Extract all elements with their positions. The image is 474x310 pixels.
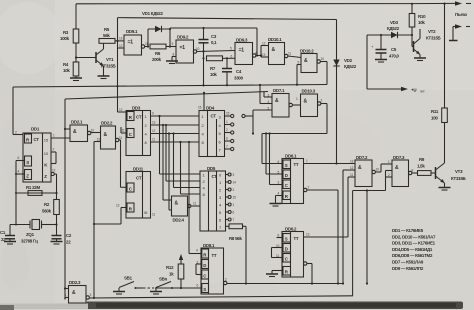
svg-text:C5: C5 <box>391 47 397 52</box>
wire +U supply tap <box>367 35 425 94</box>
ground under SBn <box>150 292 162 295</box>
wire DD8.1 output pin2 <box>224 278 344 285</box>
svg-text:&: & <box>358 165 362 171</box>
op-gate DD9.3 <box>235 38 257 65</box>
wire DD2.3 out bottom long feedback <box>89 296 352 299</box>
svg-text:S: S <box>285 163 288 168</box>
svg-text:ZQ1: ZQ1 <box>26 232 35 237</box>
svg-text:11: 11 <box>152 213 155 217</box>
svg-text:DD9 — К561ЛП2: DD9 — К561ЛП2 <box>392 266 424 271</box>
svg-text:КД522: КД522 <box>344 64 357 69</box>
wire spare feedback vertical <box>366 189 368 284</box>
switch SB1 <box>119 276 143 292</box>
wire DD7.3 lower input from DD2.3 via bottom <box>353 177 392 296</box>
wire buttons to DD8.1 S <box>155 287 201 289</box>
svg-text:DD10.1: DD10.1 <box>268 37 282 42</box>
resistor R10 <box>409 4 426 35</box>
svg-text:DD11: DD11 <box>133 167 144 172</box>
wire DD2.1 out to DD2.2 <box>91 132 101 134</box>
svg-text:10k: 10k <box>418 20 425 25</box>
svg-text:12: 12 <box>119 44 123 48</box>
wire DD1 pin15 to DD2.1 <box>51 134 70 139</box>
svg-text:SB1: SB1 <box>124 276 133 281</box>
wire DD4 top pin from rail B <box>198 92 205 111</box>
resistor R4 <box>63 62 79 76</box>
ground under R4 <box>70 76 82 81</box>
wire DD10.2 output loop to rail A <box>296 61 327 86</box>
logic gate DD2.4 <box>172 196 201 223</box>
svg-text:13: 13 <box>306 233 310 237</box>
diode VD1 KD522 <box>142 11 170 32</box>
wire bus vertical a <box>158 115 200 174</box>
svg-text:&: & <box>395 165 399 171</box>
decoder DD4 <box>199 106 225 157</box>
svg-text:11: 11 <box>288 52 291 56</box>
wire DD11 R input L-route <box>94 204 127 225</box>
svg-text:DD3: DD3 <box>132 106 141 111</box>
svg-text:R2: R2 <box>44 202 50 207</box>
svg-text:DD7 — К561ЛА9: DD7 — К561ЛА9 <box>392 260 424 265</box>
svg-text:DD9.2: DD9.2 <box>177 35 189 40</box>
svg-text:DD6.2: DD6.2 <box>285 227 297 232</box>
wire bus row4 <box>151 138 200 143</box>
ground under VT3 <box>439 188 451 191</box>
svg-text:12: 12 <box>350 166 354 170</box>
svg-text:DD9.3: DD9.3 <box>236 38 248 43</box>
wire rail B left end down to DD2.3 <box>64 99 66 299</box>
wire rail1 end arrow to piezo <box>455 1 462 5</box>
svg-text:DD2.2: DD2.2 <box>101 121 113 126</box>
svg-text:15: 15 <box>226 112 230 116</box>
svg-text:&: & <box>304 99 308 105</box>
ground DD9.2 <box>166 61 178 64</box>
transistor VT3 KT315B <box>436 152 466 188</box>
svg-text:560k: 560k <box>42 209 52 214</box>
svg-text:DD4: DD4 <box>206 106 215 111</box>
wire DD7.1 pin3 from rail B <box>264 92 272 97</box>
svg-text:R5: R5 <box>104 27 110 32</box>
DD4 output contacts <box>225 112 234 151</box>
svg-text:DD4,DD5 — К561ИД1: DD4,DD5 — К561ИД1 <box>392 247 433 252</box>
switch SBn <box>156 277 173 292</box>
resistor R5 <box>99 27 118 43</box>
svg-text:R1 22М: R1 22М <box>26 185 40 190</box>
resistor R7 <box>207 56 223 77</box>
svg-text:10k: 10k <box>210 72 217 77</box>
resistor R12 <box>166 254 184 289</box>
diode VD3 KD522 <box>367 20 413 38</box>
parts list text <box>392 228 436 271</box>
op-gate DD9.1 <box>124 29 148 55</box>
wire bus vertical g to DD8.1 R <box>188 141 201 254</box>
wire DD2.3 inputs from vertical <box>64 287 69 299</box>
diode VD2 KD522 vertical line <box>333 20 356 165</box>
svg-text:КТ315Б: КТ315Б <box>101 64 116 69</box>
svg-text:R4: R4 <box>63 62 69 67</box>
resistor R11 <box>431 4 447 152</box>
svg-text:DD7.2: DD7.2 <box>356 155 368 160</box>
svg-text:пит: пит <box>420 90 425 94</box>
svg-text:DD3, DD11 — К176ИЕ1: DD3, DD11 — К176ИЕ1 <box>392 241 436 246</box>
svg-text:R10: R10 <box>418 14 426 19</box>
ground DD6.2 <box>266 274 278 277</box>
svg-text:C4: C4 <box>236 69 242 74</box>
wire DD6.1 R to ground <box>276 196 284 204</box>
wire feedback vertical into DD9.1 inputs and down to rail A <box>116 18 124 112</box>
trigger DD8.1 <box>197 243 224 294</box>
svg-text:12: 12 <box>52 169 56 173</box>
wire top supply rail <box>76 2 456 4</box>
svg-text:DD7.3: DD7.3 <box>393 155 405 160</box>
svg-text:C2: C2 <box>66 233 72 238</box>
svg-text:10: 10 <box>376 168 380 172</box>
svg-text:C1: C1 <box>0 230 6 235</box>
svg-text:R9: R9 <box>419 157 425 162</box>
logic gate DD10.3 <box>296 89 323 117</box>
scan shadow bar bottom <box>0 302 463 310</box>
wire DD6.2 out to DD7.2 pin11 <box>304 177 356 237</box>
capacitor C5 <box>371 35 400 60</box>
svg-text:S: S <box>285 237 288 242</box>
svg-text:12: 12 <box>262 42 266 46</box>
svg-text:R6: R6 <box>155 51 161 56</box>
svg-text:DD8.1: DD8.1 <box>203 243 215 248</box>
svg-text:VD1 КД522: VD1 КД522 <box>142 11 163 16</box>
wire DD1 K loop <box>51 148 56 164</box>
wire DD6.1 D input <box>265 132 283 174</box>
resistor R6 <box>150 44 166 62</box>
svg-text:10: 10 <box>321 57 325 61</box>
svg-text:13: 13 <box>97 138 101 142</box>
svg-text:D: D <box>285 247 288 252</box>
svg-text:100k: 100k <box>60 36 70 41</box>
svg-text:VT1: VT1 <box>106 57 114 62</box>
svg-text:D: D <box>285 173 288 178</box>
wire DD3 C input <box>121 127 126 133</box>
wire DD6.1 out1 to DD7.2 pin13 <box>304 159 356 164</box>
svg-text:10: 10 <box>91 129 95 133</box>
svg-text:=1: =1 <box>180 45 186 51</box>
svg-text:CT: CT <box>136 176 142 181</box>
svg-text:D: D <box>203 263 206 268</box>
svg-text:11: 11 <box>122 129 125 133</box>
wire DD6.2 out2 <box>304 262 314 285</box>
svg-text:+U: +U <box>411 88 416 93</box>
svg-text:DD2, DD10 — К561ЛА7: DD2, DD10 — К561ЛА7 <box>392 234 436 239</box>
node junction rail1/R11 <box>443 3 445 5</box>
wire bus vertical c <box>172 132 200 187</box>
svg-text:10: 10 <box>196 47 200 51</box>
svg-text:56k: 56k <box>103 33 110 38</box>
svg-text:&: & <box>175 201 179 207</box>
svg-text:15: 15 <box>233 196 237 200</box>
svg-text:DD2.4: DD2.4 <box>173 218 185 223</box>
svg-text:&: & <box>272 47 276 53</box>
ground under C2 <box>51 242 63 245</box>
wire DD8.1 D C tie <box>196 264 202 275</box>
svg-text:=1: =1 <box>239 48 245 54</box>
svg-text:13: 13 <box>262 53 266 57</box>
wire DD10.1 out to DD10.2 <box>288 56 301 58</box>
wire top feedback rail2 <box>118 18 337 20</box>
svg-text:R7: R7 <box>210 66 216 71</box>
svg-text:0,1: 0,1 <box>211 40 217 45</box>
wire C3 column down to R7 and rail A <box>202 52 204 87</box>
wire VT1 base <box>76 57 96 59</box>
svg-text:КТ315Б: КТ315Б <box>426 36 441 41</box>
svg-text:100: 100 <box>431 116 438 121</box>
svg-text:32768 Гц: 32768 Гц <box>21 239 38 244</box>
capacitor C4 <box>222 58 244 86</box>
svg-text:DD1 — К176ИЕ5: DD1 — К176ИЕ5 <box>392 228 424 233</box>
svg-text:SBn: SBn <box>159 277 168 282</box>
svg-text:&: & <box>304 58 308 64</box>
svg-text:200k: 200k <box>152 57 162 62</box>
wire bus vertical e to DD2.4 <box>162 124 172 200</box>
capacitor C2 <box>52 233 72 245</box>
svg-text:TT: TT <box>212 253 217 258</box>
logic gate DD2.1 <box>64 120 94 142</box>
svg-text:КТ315Б: КТ315Б <box>451 176 466 181</box>
wire DD7.1 out to DD10.3 <box>292 104 300 106</box>
wire DD7.2 pin12 from feedback <box>342 170 355 285</box>
transistor VT2 KT315B <box>412 29 441 58</box>
svg-text:DD9.1: DD9.1 <box>126 29 138 34</box>
wire DD6.2 S input stub <box>277 237 284 239</box>
ground under C5 <box>375 60 387 63</box>
svg-text:DD10.3: DD10.3 <box>302 89 316 94</box>
op-gate DD9.2 <box>176 35 200 64</box>
wire oscillator top link rail3 <box>169 27 257 56</box>
svg-text:11: 11 <box>193 202 196 206</box>
wire dashed between buttons <box>143 287 154 289</box>
svg-text:=1: =1 <box>128 40 134 46</box>
wire bus row3 <box>151 129 200 134</box>
svg-text:CT: CT <box>136 115 142 120</box>
svg-text:VD2: VD2 <box>344 58 353 63</box>
svg-text:R12: R12 <box>166 265 174 270</box>
svg-text:DD2.1: DD2.1 <box>71 120 83 125</box>
decoder DD5 <box>200 166 226 231</box>
wire bus vertical f to DD2.4 <box>168 132 172 210</box>
svg-text:&: & <box>275 98 279 104</box>
wire DD6.1 C input <box>268 132 283 184</box>
wire rail A long horizontal <box>13 84 327 87</box>
wire rail B horizontal <box>65 92 268 100</box>
logic gate DD10.2 <box>300 49 324 73</box>
resistor R1 <box>16 185 57 195</box>
ground under VT2 <box>414 58 426 61</box>
wire DD7.1 pin5 stub <box>253 109 272 111</box>
svg-text:R3: R3 <box>63 30 69 35</box>
ground under SB1 <box>113 292 125 295</box>
node DD9.1 out / VD1 / R6 <box>147 29 149 48</box>
wire bus DD3 to DD4 row1 <box>151 112 200 117</box>
ground under C1 <box>4 242 16 245</box>
wire DD7.1 pin4 from rail A <box>260 85 272 104</box>
wire DD1 S and Z pins to crystal net <box>15 156 25 225</box>
svg-text:470,0: 470,0 <box>389 54 400 59</box>
wire DD6.2 R to ground <box>272 271 283 275</box>
svg-text:12: 12 <box>152 129 156 133</box>
wire DD2.2 pin13 feedback from bottom <box>93 142 101 299</box>
logic gate DD2.3 <box>65 280 92 303</box>
svg-text:&: & <box>73 129 77 135</box>
svg-text:VT3: VT3 <box>455 169 463 174</box>
svg-text:DD2.3: DD2.3 <box>69 280 81 285</box>
svg-text:12: 12 <box>119 108 123 112</box>
svg-text:&: & <box>72 290 76 296</box>
counter DD11 <box>126 167 155 219</box>
wire bus vertical b <box>165 124 200 181</box>
node junction rail1/R10 <box>411 3 413 5</box>
svg-text:14: 14 <box>233 181 237 185</box>
svg-text:C3: C3 <box>211 34 217 39</box>
svg-text:11: 11 <box>119 136 122 140</box>
svg-text:DD6,DD8 — К561ТМ2: DD6,DD8 — К561ТМ2 <box>392 253 433 258</box>
wire VD1 rejoin / to DD9.2 input <box>166 29 176 48</box>
resistor R8 <box>226 224 248 285</box>
svg-text:56: 56 <box>144 211 148 215</box>
wire DD10.3 output loop down to DD6.1 <box>262 104 327 164</box>
wire bus row2 <box>151 121 200 126</box>
svg-text:КД522: КД522 <box>387 26 400 31</box>
wire DD1 pin12 output <box>51 169 58 200</box>
resistor R3 <box>60 29 79 43</box>
wire R7 to DD9.3 pin6 <box>223 54 236 59</box>
logic gate DD7.1 <box>268 88 293 117</box>
resistor R2 <box>42 200 59 236</box>
svg-text:13: 13 <box>116 204 120 208</box>
svg-text:DD6.1: DD6.1 <box>285 154 297 159</box>
svg-text:TT: TT <box>294 236 299 241</box>
wire DD7.3 mid input stub <box>386 171 393 178</box>
capacitor C3 <box>199 28 218 52</box>
wire DD2.2 out down to DD11 C <box>119 140 126 187</box>
svg-text:S: S <box>26 160 29 165</box>
svg-text:15: 15 <box>198 106 202 110</box>
wire DD9.3 out to DD10.1 inputs <box>256 42 269 58</box>
svg-text:CT: CT <box>34 137 40 142</box>
wire R3-R4 <box>75 43 77 62</box>
svg-text:13: 13 <box>152 121 156 125</box>
wire bus vertical d <box>179 141 200 194</box>
wire stray contact <box>242 110 254 135</box>
logic gate DD7.2 <box>350 155 379 187</box>
piezo terminal second wire <box>449 24 470 40</box>
wire R3 top <box>75 4 77 29</box>
wire DD7.2 out to DD7.3 <box>375 164 392 172</box>
svg-text:R11: R11 <box>431 109 439 114</box>
svg-text:DD7.1: DD7.1 <box>273 88 285 93</box>
svg-text:1,5k: 1,5k <box>417 164 425 169</box>
wire DD9.2 out to DD9.3 <box>197 47 235 53</box>
trigger DD6.2 <box>276 227 304 278</box>
svg-text:VD3: VD3 <box>390 20 399 25</box>
svg-text:VT2: VT2 <box>428 29 436 34</box>
svg-text:DD1: DD1 <box>31 127 40 132</box>
transistor VT1 KT315B <box>96 43 116 76</box>
svg-text:TT: TT <box>294 162 299 167</box>
svg-text:13: 13 <box>119 37 123 41</box>
svg-text:Пьезо: Пьезо <box>455 12 467 17</box>
svg-text:DD10.2: DD10.2 <box>300 49 314 54</box>
ground DD6.1 <box>270 204 282 207</box>
svg-text:11: 11 <box>152 138 155 142</box>
svg-text:11: 11 <box>350 173 353 177</box>
svg-text:R8 56k: R8 56k <box>229 236 242 241</box>
svg-text:13: 13 <box>350 160 354 164</box>
resistor R9 <box>412 157 436 175</box>
node R3/R4/VT1 base <box>75 56 77 58</box>
logic gate DD2.2 <box>97 121 123 150</box>
svg-text:10k: 10k <box>63 68 70 73</box>
wire DD6.2 D C inputs tie <box>272 248 284 258</box>
trigger DD6.1 <box>278 154 304 204</box>
svg-text:CT: CT <box>211 114 217 119</box>
wire DD1 pin2 from rail A <box>13 87 23 135</box>
svg-text:DD5: DD5 <box>207 166 216 171</box>
wire DD6.1 out2 <box>304 186 340 285</box>
svg-text:&: & <box>104 132 108 138</box>
counter DD3 <box>126 106 151 156</box>
DD5 output contacts <box>226 173 237 222</box>
counter DD1 <box>23 127 51 183</box>
logic gate DD7.3 <box>388 155 414 187</box>
capacitor C1 <box>0 225 15 243</box>
wire DD9.2 pin8 to ground <box>172 53 176 62</box>
wire DD3 R input <box>118 108 127 112</box>
svg-text:3300: 3300 <box>234 76 244 81</box>
ground under VT1 emitter <box>98 76 110 79</box>
crystal ZQ1 32768 Hz <box>10 220 57 244</box>
logic gate DD10.1 <box>268 37 291 65</box>
svg-text:S: S <box>203 287 206 292</box>
